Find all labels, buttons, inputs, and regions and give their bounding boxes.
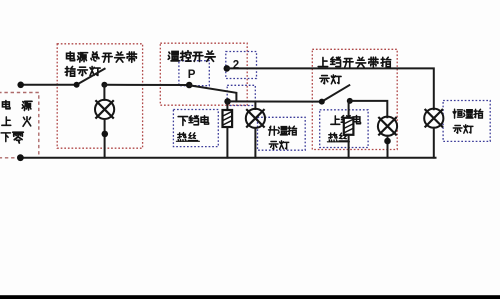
label: 示灯 (constant temp indicator, line 2) bbox=[453, 125, 473, 133]
wire: S3 contact to lamp HL3 drop bbox=[350, 101, 388, 117]
label: 下铛电 (lower plate heater, line 1) bbox=[178, 116, 208, 126]
label: 热丝 (heater wire, line 2) bbox=[176, 133, 199, 142]
wire: R1 to neutral bus bbox=[226, 127, 228, 158]
wire: neutral bus bbox=[20, 157, 435, 159]
bottom video bar bbox=[0, 295, 500, 299]
lamp HL4 constant-temperature indicator bbox=[424, 109, 443, 128]
label: 示灯 (upper plate switch, line 2) bbox=[320, 75, 341, 84]
box: upper-plate switch with indicator (red dotted) bbox=[312, 49, 397, 149]
box: heating-up indicator label (blue dotted) bbox=[258, 117, 306, 150]
lamp HL1 main power indicator bbox=[95, 100, 114, 119]
box: contact 1 (blue dotted) bbox=[227, 85, 255, 105]
node: HL1 lower junction dot bbox=[102, 131, 109, 138]
label: 指示灯 (indicator lamp) bbox=[65, 66, 100, 76]
node: live terminal dot bbox=[17, 82, 24, 89]
label: 电源总开关带 (main power switch with) bbox=[67, 52, 137, 62]
wire: HL1 to neutral bus bbox=[104, 119, 106, 157]
node: S3 hinge dot bbox=[319, 99, 325, 105]
wire: tap to heating indicator lamp HL2 bbox=[254, 102, 256, 110]
node P: thermostat pole dot bbox=[186, 82, 193, 89]
wire: HL4 to neutral bus bbox=[433, 128, 435, 158]
label: 热丝 (upper heater, line 2) bbox=[327, 133, 349, 142]
switch S1 main power switch blade bbox=[77, 69, 105, 85]
resistor R2 upper heating element bbox=[344, 118, 354, 135]
wire: contact 1 bus to S3 bbox=[228, 100, 322, 102]
switch S3 upper-plate switch blade bbox=[322, 85, 350, 101]
label: 上 火 (top live) bbox=[2, 117, 31, 127]
lamp HL2 heating-up indicator bbox=[246, 109, 265, 128]
box: thermostat switch (red dotted) bbox=[160, 43, 247, 105]
wire: contact 2 to right drop bbox=[227, 68, 434, 109]
wire: lead from S1 contact down to lamp HL1 bbox=[103, 85, 105, 100]
wire: HL3 to neutral bus bbox=[387, 136, 389, 158]
label: 示灯 (heating-up indicator, line 2) bbox=[269, 141, 288, 149]
label: 上铛电 (upper heater, line 1) bbox=[331, 115, 361, 124]
box: upper heater label (blue dotted) bbox=[320, 110, 368, 148]
wire: R2 to neutral bus bbox=[348, 135, 350, 158]
resistor R1 lower heating element bbox=[223, 110, 233, 127]
box: lower heater label (blue dotted) bbox=[173, 110, 218, 147]
label: 温控开关 (thermostat switch) bbox=[168, 51, 215, 62]
svg-text:2: 2 bbox=[233, 60, 239, 72]
box: P pole label (blue dotted) bbox=[179, 61, 209, 86]
wire: S1 contact to thermostat pole P bbox=[104, 84, 189, 86]
box: power source terminals (red dashed) bbox=[0, 93, 39, 158]
box: contact 2 (blue dotted) bbox=[226, 52, 257, 79]
wire: lead to lower heater R1 bbox=[226, 101, 228, 110]
node: S1 hinge dot bbox=[74, 82, 80, 88]
wire: lead to upper heater R2 bbox=[348, 101, 350, 118]
label: 电 源 (power source) bbox=[2, 101, 32, 111]
node: S1 contact dot bbox=[101, 82, 107, 88]
label: 恒温指 (constant temp indicator, line 1) bbox=[453, 109, 483, 118]
node: thermostat contact 1 dot bbox=[224, 98, 231, 105]
label: 升温指 (heating-up indicator, line 1) bbox=[269, 126, 297, 135]
wire: HL2 to neutral bus bbox=[254, 128, 256, 158]
node: S3 contact dot bbox=[347, 98, 353, 104]
switch S2 thermostat blade to contact 1 bbox=[189, 85, 236, 101]
node: thermostat contact 2 dot bbox=[224, 65, 231, 72]
lamp HL3 upper-plate indicator bbox=[378, 117, 397, 136]
wire: live input from left terminal bbox=[21, 84, 77, 86]
box: constant-temp indicator label (blue dotted) bbox=[443, 101, 490, 142]
label: 上铛开关带指 (upper plate switch with, line 1) bbox=[318, 57, 390, 67]
node: neutral terminal dot bbox=[17, 154, 24, 161]
label: 下 零 (bottom neutral) bbox=[1, 132, 23, 143]
node: HL3 lower junction dot bbox=[384, 138, 391, 145]
box: main power switch with indicator (red dotted) bbox=[57, 44, 142, 148]
svg-text:P: P bbox=[188, 69, 196, 81]
